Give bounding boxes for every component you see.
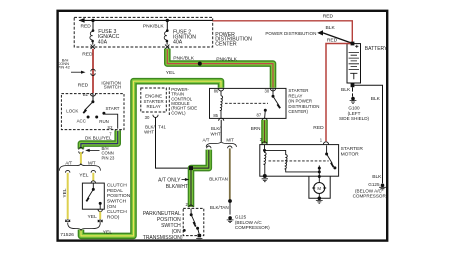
clutch switch contacts [86, 183, 102, 209]
label STARTER RELAY (IN POWER DISTRIBUTION CENTER) [288, 88, 319, 114]
fuse F3 IGN/ACC 40A [90, 20, 95, 49]
svg-text:BLK: BLK [341, 87, 351, 93]
svg-text:M: M [317, 186, 321, 191]
svg-text:TRANSMISSION): TRANSMISSION) [143, 235, 183, 241]
connector B/H pin 23 [79, 147, 83, 153]
wire BLK/WHT T41 from ESR to junction [156, 117, 190, 168]
ground G125 mid [227, 216, 234, 223]
svg-text:PIN 42: PIN 42 [58, 65, 71, 70]
relay link dashed [225, 102, 268, 104]
starter relay box (solid) [210, 88, 287, 118]
ground below motor [316, 197, 323, 204]
svg-text:85: 85 [213, 113, 218, 118]
wire BLK/WHT relay85 down [220, 120, 222, 141]
wire YEL below pin23 [80, 152, 82, 164]
motor hanger box [309, 176, 330, 198]
svg-text:BLK/TAN: BLK/TAN [210, 205, 229, 210]
svg-text:COWL): COWL) [171, 110, 186, 115]
wire YEL A/T branch (left) [66, 170, 70, 172]
rejoin brace bottom [68, 223, 101, 230]
label ENGINE STARTER RELAY [144, 94, 164, 109]
svg-text:COMPRESSOR): COMPRESSOR) [235, 225, 270, 230]
wire RED battery to starter motor pin 1 [326, 44, 350, 142]
svg-text:YEL: YEL [88, 214, 98, 220]
svg-text:ROD): ROD) [107, 214, 120, 220]
svg-text:S2: S2 [107, 125, 113, 130]
svg-text:YEL: YEL [166, 70, 176, 76]
svg-text:BLK/: BLK/ [211, 126, 221, 131]
svg-text:SWITCH: SWITCH [107, 199, 127, 205]
starter link dashed [269, 160, 329, 162]
label B/H CONN PIN 23 + arrow [89, 149, 100, 151]
svg-text:(ON: (ON [107, 204, 116, 210]
svg-text:RED: RED [313, 125, 324, 131]
label G125 mid [235, 214, 270, 230]
connector clutch top [91, 181, 95, 183]
svg-text:LOCK: LOCK [66, 108, 78, 113]
junction T41 / A/T branch [189, 166, 193, 170]
svg-text:30: 30 [265, 89, 270, 94]
label G125 right [353, 182, 388, 198]
svg-text:YEL: YEL [79, 172, 89, 178]
svg-text:POWER DISTRIBUTION: POWER DISTRIBUTION [265, 31, 316, 36]
wire BLK battery negative to G100 [352, 87, 354, 96]
svg-text:ACC: ACC [77, 119, 86, 124]
svg-text:87: 87 [257, 113, 262, 118]
wire BLK/TAN M/T branch to G125 [228, 146, 232, 148]
highlighted wire PNK/BLK fuse2 to relay 30 [167, 49, 273, 88]
park/neutral position switch box (dashed) [183, 208, 204, 235]
svg-text:PNK/BLK: PNK/BLK [216, 57, 237, 63]
power distribution center box (dashed) [74, 17, 213, 47]
svg-text:CENTER): CENTER) [288, 109, 308, 114]
svg-text:PNK/BLK: PNK/BLK [173, 56, 194, 62]
svg-text:YEL: YEL [62, 188, 68, 198]
svg-text:START: START [106, 106, 120, 111]
ground G125 right [379, 184, 386, 191]
highlighted wire DK BLU/YEL ignition S2 to B/H pin 23 [81, 131, 118, 149]
svg-text:RED: RED [78, 83, 89, 89]
svg-text:A/T: A/T [203, 138, 210, 143]
svg-text:PEDAL: PEDAL [107, 188, 123, 194]
svg-text:CLUTCH: CLUTCH [107, 183, 127, 189]
svg-text:RUN: RUN [99, 119, 109, 124]
battery [347, 42, 361, 88]
label FUSE 3 [98, 29, 120, 45]
wire RED battery to PDC [213, 21, 353, 42]
wire bus inside PDC [79, 19, 213, 21]
svg-text:G125: G125 [235, 214, 247, 219]
svg-text:PIN 23: PIN 23 [102, 155, 115, 160]
svg-text:71526: 71526 [60, 232, 74, 238]
arrow bus continue left [79, 18, 85, 23]
engine starter relay box (dashed, in PCM) [141, 88, 167, 112]
svg-text:BLK: BLK [372, 174, 382, 180]
svg-text:BLK/TAN: BLK/TAN [209, 177, 228, 182]
svg-text:BRN: BRN [251, 126, 261, 131]
svg-text:WHT: WHT [144, 129, 154, 134]
connector clutch bottom [98, 209, 102, 211]
node BLK/TAN connector [228, 199, 232, 203]
svg-text:SWITCH: SWITCH [104, 85, 121, 90]
highlighted wire YEL clutch to relay 86 [81, 81, 221, 236]
fuse F2 IGNITION 40A [164, 20, 169, 49]
svg-text:A/T: A/T [65, 161, 72, 166]
label POWERTRAIN CONTROL MODULE [171, 87, 197, 116]
wire YEL M/T branch to clutch switch [91, 170, 95, 172]
svg-text:MOTOR: MOTOR [341, 151, 360, 157]
ignition switch box (dashed) [61, 94, 124, 130]
relay coil [220, 91, 223, 119]
wire BLK battery negative to G125 right [354, 85, 382, 183]
svg-text:CLUTCH: CLUTCH [107, 209, 127, 215]
starter solenoid windings [262, 145, 320, 182]
svg-text:PNK/BLK: PNK/BLK [143, 23, 164, 29]
relay contacts [264, 89, 281, 118]
label POWER DISTRIBUTION CENTER [215, 32, 252, 48]
highlighted wire BRN relay 87 to starter 2 [261, 120, 268, 144]
label STARTER MOTOR [341, 146, 364, 157]
split brace A/T M/T right [206, 142, 236, 147]
label BLK/WHT relay [211, 126, 222, 137]
connector A/T branch top [207, 146, 211, 148]
svg-text:G125: G125 [368, 182, 380, 187]
node fuse2 top [166, 19, 169, 22]
node fuse3 top [91, 19, 94, 22]
motor M [312, 183, 326, 198]
svg-text:B1: B1 [83, 92, 89, 97]
label PARK/NEUTRAL POSITION SWITCH (ON TRANSMISSION) [143, 211, 183, 241]
svg-text:BLK: BLK [371, 96, 381, 102]
connector B/H pin 42 [91, 69, 95, 75]
starter contacts [318, 145, 337, 182]
svg-text:(LEFT: (LEFT [348, 111, 361, 116]
svg-text:RED: RED [81, 23, 92, 29]
label G100 (LEFT SIDE SHIELD) [339, 105, 370, 121]
ground G100 [350, 97, 357, 104]
svg-text:POSITION: POSITION [107, 193, 131, 199]
svg-text:STARTER: STARTER [341, 146, 364, 152]
svg-text:T41: T41 [158, 124, 166, 129]
label FUSE 2 [173, 29, 196, 45]
svg-text:M/T: M/T [88, 161, 96, 166]
svg-text:DK BLU/YEL: DK BLU/YEL [85, 136, 112, 141]
svg-text:RELAY: RELAY [147, 104, 161, 109]
label B/H CONN PIN 42 [57, 58, 70, 70]
svg-text:BLK/WHT: BLK/WHT [166, 184, 188, 190]
split brace A/T M/T left [59, 164, 100, 171]
svg-text:RED: RED [82, 51, 93, 57]
svg-text:RED: RED [327, 37, 338, 43]
arrow to B/H conn 42 [71, 71, 82, 73]
svg-text:G100: G100 [348, 105, 360, 110]
ignition switch contacts [83, 94, 118, 129]
clutch pedal position switch box [82, 183, 104, 209]
highlighted wire BLK/WHT A/T branch to park/neutral [191, 150, 209, 207]
svg-text:30: 30 [145, 115, 150, 120]
svg-text:YEL: YEL [103, 229, 113, 235]
svg-text:A/T ONLY: A/T ONLY [158, 177, 181, 183]
svg-text:RED: RED [323, 13, 334, 19]
node splice on PNK/BLK [198, 62, 202, 66]
border frame [58, 11, 388, 241]
svg-text:COMPRESSOR): COMPRESSOR) [353, 193, 388, 198]
label CLUTCH PEDAL POSITION SWITCH (ON CLUTCH ROD) [107, 183, 131, 221]
svg-text:M/T: M/T [226, 138, 234, 143]
label BLK/WHT T41 [144, 124, 166, 134]
svg-text:40A: 40A [173, 40, 183, 46]
svg-text:CENTER: CENTER [215, 42, 237, 48]
wire RED fuse3 to ignition switch B1 [92, 49, 94, 93]
svg-text:BATTERY: BATTERY [365, 46, 388, 52]
PCM dashed boundary [168, 87, 170, 115]
starter motor box [260, 145, 339, 177]
svg-text:WHT: WHT [211, 132, 221, 137]
PN bottom terminal + ground [198, 234, 202, 237]
label IGNITION SWITCH [101, 81, 121, 90]
svg-text:40A: 40A [98, 39, 108, 45]
svg-text:BLK: BLK [326, 25, 336, 31]
PN switch contacts [183, 209, 199, 234]
svg-text:SIDE SHIELD): SIDE SHIELD) [339, 116, 370, 121]
wire YEL clutch output [99, 212, 101, 220]
wire BLK battery to power distribution [323, 33, 351, 43]
